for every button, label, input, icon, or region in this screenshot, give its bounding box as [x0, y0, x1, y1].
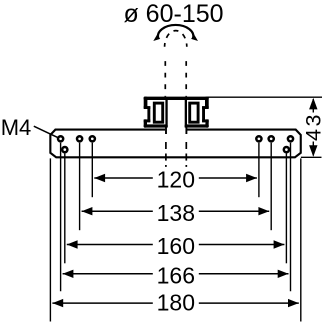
svg-text:ø 60-150: ø 60-150 — [123, 0, 223, 28]
dim 43: dimension line — [312, 99, 314, 156]
svg-text:43: 43 — [302, 112, 326, 141]
holes upper row — [58, 136, 293, 141]
svg-text:120: 120 — [157, 166, 195, 192]
svg-text:180: 180 — [157, 290, 195, 316]
holes lower pair — [62, 147, 289, 152]
centerline dashed vertical right — [185, 61, 187, 97]
hidden pipe arc (dashed) — [165, 31, 187, 47]
clamp band arrow left — [153, 35, 160, 41]
svg-text:138: 138 — [157, 200, 195, 226]
extension lines right — [259, 143, 301, 322]
dim 43: bottom extension line — [301, 156, 322, 158]
dim 43: arrow down — [309, 145, 317, 157]
dim 43: top extension line — [208, 96, 323, 98]
right rail profile — [185, 97, 209, 128]
saddle top plate — [144, 97, 209, 100]
dim 166 — [63, 262, 289, 288]
slot edge left — [165, 127, 167, 134]
leader line M4 — [34, 126, 58, 137]
dim 43: text — [305, 113, 322, 142]
centerline dashed vertical left — [164, 61, 166, 97]
clamp band arrow right — [191, 35, 198, 41]
dim 138 — [82, 200, 270, 226]
dim 43: arrow up — [309, 98, 317, 110]
crossbar outline — [50, 130, 300, 158]
svg-text:166: 166 — [157, 262, 195, 288]
dim 120 — [94, 166, 257, 192]
left rail profile — [144, 97, 168, 128]
clamp band arc — [158, 25, 193, 39]
dim 180 — [52, 290, 298, 316]
svg-text:M4: M4 — [1, 115, 32, 140]
slot edge right — [185, 127, 187, 134]
svg-text:160: 160 — [157, 233, 195, 259]
extension lines left — [50, 143, 92, 322]
dim 160 — [67, 233, 285, 259]
centerline dashes through bar right — [185, 142, 187, 167]
centerline dashes through bar left — [165, 142, 167, 167]
